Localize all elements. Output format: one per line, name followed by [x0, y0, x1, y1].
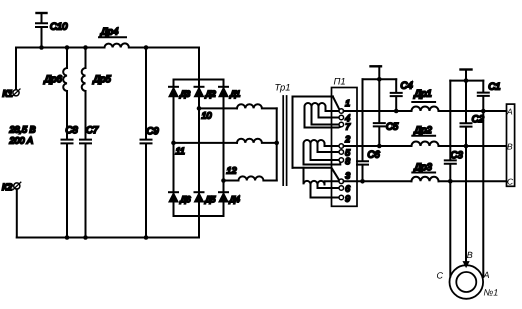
transformer Tr1 core [283, 96, 286, 185]
wire bridge top rail [174, 79, 224, 81]
svg-text:9: 9 [345, 194, 350, 204]
inductor Dr2 [412, 125, 439, 146]
junction dot star point [274, 141, 279, 146]
pin 1 [339, 98, 350, 113]
ground chassis left bank [371, 65, 382, 67]
svg-text:C8: C8 [66, 125, 79, 136]
pin 5 [339, 148, 350, 158]
pin 8 [339, 156, 350, 166]
svg-text:2: 2 [344, 134, 350, 144]
svg-text:Д4: Д4 [229, 194, 240, 204]
svg-text:В: В [467, 250, 473, 260]
inductor Dr4 [99, 27, 129, 48]
wire winding a tap to pin 7 [312, 107, 340, 125]
svg-text:Др2: Др2 [414, 125, 433, 136]
svg-text:6: 6 [345, 184, 350, 194]
junction dot C2 row B [464, 144, 469, 149]
svg-text:А: А [483, 270, 490, 280]
wire winding b tap to pin 5 [318, 144, 340, 153]
wire winding a start [305, 126, 341, 129]
capacitor C4 [391, 79, 413, 111]
wire winding b tap to pin 8 [311, 144, 340, 161]
junction dot C9 bottom [144, 235, 149, 240]
motor arrowhead on line B [463, 262, 469, 267]
capacitor C2 [461, 81, 485, 146]
wire motor line A [482, 111, 484, 277]
wire bottom bus [17, 237, 199, 239]
wire primary star point [276, 108, 278, 180]
pin 3 [339, 171, 350, 184]
terminal K1 [3, 48, 21, 99]
wire bridge middle column [198, 48, 200, 238]
capacitor C10 [36, 13, 68, 48]
inductor Dr3 [412, 162, 439, 181]
wire outer loop bottom to pin 3 diagonal [293, 168, 339, 180]
ground chassis right bank [461, 68, 472, 70]
pin 6 [339, 184, 350, 194]
transformer Tr1 primary winding 2 [237, 139, 277, 143]
svg-text:К1: К1 [3, 89, 13, 99]
svg-text:Др1: Др1 [414, 89, 432, 100]
junction dot C9 top [144, 45, 149, 50]
pin 2 [339, 134, 350, 148]
svg-text:C3: C3 [451, 150, 464, 161]
junction dot C1 row A [481, 109, 486, 114]
junction dot C10/top bus [39, 45, 44, 50]
wire ground stem right bank [465, 70, 467, 81]
wire winding b start [304, 162, 341, 164]
wire ground stem left bank [378, 66, 380, 79]
pin 9 [339, 194, 350, 204]
wire winding c end to pin 3 [325, 181, 340, 184]
diode D2 [194, 87, 216, 99]
wire winding c tap to pin 9 [311, 184, 340, 197]
svg-text:C: C [507, 177, 514, 187]
svg-text:12: 12 [227, 166, 237, 176]
svg-text:C7: C7 [86, 125, 99, 136]
capacitor C3 [445, 81, 464, 182]
svg-text:C9: C9 [147, 126, 160, 137]
wire diagonal to pin 1 [333, 97, 340, 110]
capacitor C8 [62, 125, 79, 238]
wire right bank bar [450, 80, 483, 82]
junction dot C6 row C [360, 179, 365, 184]
wire secondary outer loop [293, 97, 333, 168]
junction dot C3 row C [448, 179, 453, 184]
wire bridge right column [223, 80, 225, 217]
transformer Tr1 secondary winding a [305, 103, 326, 127]
svg-text:11: 11 [176, 146, 185, 156]
junction dot right bank [464, 78, 469, 83]
svg-text:Др6: Др6 [44, 74, 63, 85]
svg-text:C6: C6 [368, 150, 381, 161]
diode D3 [169, 87, 191, 99]
generator G1 inner circle [456, 272, 476, 292]
svg-text:A: A [506, 107, 513, 117]
wire phase row B [344, 145, 507, 147]
wire phase row C [344, 180, 507, 182]
transformer Tr1 secondary winding b [304, 140, 325, 165]
capacitor C6 [357, 79, 380, 181]
svg-text:C1: C1 [488, 82, 500, 93]
svg-text:Др5: Др5 [93, 74, 112, 85]
svg-text:Д1: Д1 [229, 88, 239, 98]
svg-text:Др4: Др4 [100, 27, 118, 38]
svg-text:Др3: Др3 [414, 162, 433, 173]
svg-text:Д6: Д6 [180, 194, 191, 204]
pin 7 [339, 122, 351, 132]
wire bridge bottom rail [174, 215, 224, 217]
wire bridge left column [173, 80, 175, 217]
svg-text:C2: C2 [472, 114, 485, 125]
junction dot C8 bottom [65, 235, 70, 240]
wire motor line C [449, 181, 451, 276]
wire motor line B [465, 146, 467, 265]
wire winding a end to pin 1 [326, 107, 340, 112]
transformer Tr1 primary winding 1 [237, 104, 277, 108]
node 10 [197, 106, 212, 120]
terminal K2 [2, 182, 21, 238]
svg-text:10: 10 [202, 111, 212, 121]
svg-text:C4: C4 [401, 81, 413, 92]
junction dot Dr6 top [65, 45, 70, 50]
transformer Tr1 secondary winding c [304, 168, 325, 185]
capacitor C9 [141, 48, 160, 238]
svg-text:3: 3 [345, 171, 350, 181]
capacitor C7 [80, 125, 99, 238]
connector P1 box [332, 88, 358, 207]
wire node11 to winding [174, 142, 238, 144]
svg-text:200 А: 200 А [9, 136, 34, 146]
wire phase row A [344, 110, 507, 112]
junction dot C5 row B [377, 144, 382, 149]
svg-text:C5: C5 [386, 122, 399, 133]
svg-text:28,5 В: 28,5 В [9, 125, 36, 135]
pin 4 [339, 113, 350, 123]
svg-text:Д5: Д5 [204, 194, 215, 204]
capacitor C1 [478, 81, 501, 111]
svg-text:П1: П1 [334, 77, 346, 88]
junction dot C7 bottom [83, 235, 88, 240]
wire winding c tap to pin 6 [318, 184, 340, 188]
svg-text:Д3: Д3 [179, 88, 190, 98]
generator G1 outer circle [450, 265, 484, 299]
svg-text:1: 1 [345, 98, 350, 108]
inductor Dr1 [412, 89, 439, 112]
wire top bus [16, 47, 199, 49]
capacitor C5 [374, 79, 399, 146]
svg-text:C10: C10 [50, 22, 68, 33]
junction dot C4 row A [394, 109, 399, 114]
wire left bank bar [363, 78, 397, 80]
svg-text:№1: №1 [484, 288, 499, 298]
terminal block ABC [506, 104, 515, 186]
svg-text:Д2: Д2 [205, 88, 216, 98]
svg-text:С: С [437, 271, 444, 281]
diode D4 [219, 192, 240, 204]
diode D5 [194, 192, 215, 204]
svg-text:7: 7 [345, 122, 351, 132]
node 11 [171, 141, 185, 156]
junction dot Dr5 top [83, 45, 88, 50]
diode D1 [219, 87, 240, 99]
wire winding b end to pin 2 [325, 144, 340, 147]
svg-text:К2: К2 [2, 182, 12, 192]
svg-text:Тр1: Тр1 [275, 83, 291, 94]
inductor Dr6 [44, 48, 68, 140]
transformer Tr1 primary winding 3 [239, 176, 277, 180]
wire node10 to winding [199, 107, 237, 109]
diode D6 [169, 192, 191, 204]
wire node12 to winding [224, 180, 239, 182]
ground chassis at C10 [37, 12, 47, 14]
wire winding a tap to pin 4 [319, 107, 340, 118]
svg-text:8: 8 [345, 156, 350, 166]
junction dot left bank [377, 77, 382, 82]
svg-text:B: B [507, 142, 513, 152]
inductor Dr5 [82, 48, 112, 140]
node 12 [221, 166, 236, 183]
